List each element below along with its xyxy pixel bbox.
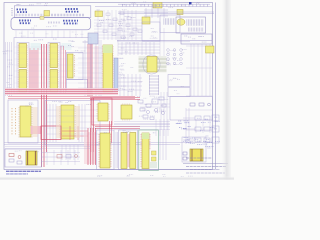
box around U12 (97, 130, 115, 170)
connector box J2 rounded (11, 18, 91, 30)
cassette interface labels (184, 36, 206, 42)
pin ticks U3 (74, 55, 76, 77)
CPU area labels (120, 43, 144, 92)
psu wires right (41, 153, 80, 162)
right long verticals (191, 44, 210, 96)
pin ticks U6 (19, 107, 32, 138)
red stub wires mid-bottom (62, 126, 88, 140)
row2 box titles (26, 103, 34, 106)
title separator (183, 163, 228, 165)
wires in U7 box (47, 104, 85, 142)
box around U1 pair (17, 43, 29, 94)
ladder below CPU (149, 76, 159, 94)
CPU outline (143, 55, 160, 74)
title text (186, 158, 226, 173)
parts box below logic (142, 22, 160, 41)
wire field left of U4 (85, 40, 101, 96)
regulator VR1 (177, 10, 183, 15)
pin cluster J1A (17, 9, 28, 12)
tan parts left of U6 (12, 108, 16, 136)
keypad box (176, 17, 206, 33)
box below keypad (181, 34, 212, 44)
comb network RN1 (164, 18, 176, 25)
box around U7 (45, 101, 100, 146)
top-right yellow part (206, 46, 215, 53)
pin ticks U14 (141, 134, 150, 167)
bottom page-edge shadow (0, 176, 234, 180)
blue box upper-left of U4 (88, 33, 98, 44)
pin ticks U2 (49, 45, 58, 91)
cluster wires (183, 118, 195, 140)
pink smear right of bus (95, 46, 99, 93)
latch U11 (153, 3, 162, 9)
bottom faint text (97, 175, 133, 177)
U3 box (67, 53, 84, 80)
box around U13 (119, 130, 138, 170)
analog cluster labels (137, 96, 168, 119)
IC U9 (121, 105, 132, 119)
IC U7 (61, 105, 74, 139)
diodes D1 D2 (57, 155, 77, 159)
secondary red pair (8, 97, 135, 99)
IC U4 tall (103, 45, 113, 92)
connector J2 pin labels (31, 26, 57, 28)
IC U2a (50, 44, 58, 68)
wires top middle (98, 10, 136, 40)
logic block labels (150, 29, 158, 39)
red bus row2 (90, 98, 140, 153)
drawing frame border (4, 3, 216, 170)
small parts mid J2 (48, 22, 61, 24)
IC U13a (121, 133, 127, 169)
CPU U5 (147, 57, 157, 73)
IC U3 (68, 54, 74, 78)
video section reference text (97, 10, 136, 38)
pin cluster J2A (19, 21, 31, 24)
comb network RN3 (187, 19, 205, 26)
pink block right of U6 (31, 126, 42, 134)
transformer bars (27, 151, 29, 165)
pin ticks U8 (97, 104, 109, 120)
row3 IC labels (104, 131, 156, 133)
pin ticks U9 (122, 104, 131, 120)
page background (0, 0, 234, 180)
blue jumper dot (189, 2, 192, 5)
red box lower mid (41, 126, 61, 140)
CPU pin hatch (139, 57, 167, 72)
left margin wires (6, 42, 12, 96)
IC U8 (98, 103, 108, 121)
IC U10 small (142, 17, 150, 24)
small parts field top-middle (97, 12, 142, 39)
parts row above modulator (183, 137, 214, 148)
video connector cluster (195, 115, 219, 143)
connector labels texture (16, 4, 47, 6)
IC U2b (50, 70, 58, 93)
small bead FB2 (40, 16, 44, 19)
annotation line2 (6, 173, 28, 175)
IC U13b (130, 133, 136, 169)
box below U3 (67, 80, 88, 92)
pin ticks U1 (18, 45, 27, 91)
decoupling cap row (122, 5, 208, 7)
keypad yellow cap (177, 19, 185, 25)
pin cluster J2B (63, 21, 78, 24)
connector box J1 (14, 6, 91, 18)
pin ticks U4 (102, 46, 113, 91)
long horizontal wire pair (4, 143, 212, 145)
red data bus (5, 90, 118, 94)
wires below CPU (120, 74, 140, 96)
parts above cluster (190, 103, 210, 106)
pin ticks U7 (60, 106, 76, 138)
pin cluster J1B (65, 9, 79, 12)
IC U1b (19, 70, 27, 93)
pink between U13 (127, 134, 129, 167)
IC U12 (100, 133, 110, 168)
wires above CPU (122, 42, 154, 55)
red box around U8 (92, 98, 112, 125)
address bus pink smear (29, 50, 39, 93)
box around U2 pair (48, 43, 60, 94)
parts left of modulator (183, 152, 187, 160)
keyboard transistor cluster (167, 49, 183, 65)
blue strip right of U4 (114, 58, 118, 91)
RAM bank labels (61, 46, 86, 51)
output connector labels (195, 117, 220, 142)
modulator bars (191, 149, 193, 161)
cyan patch right of U2 (62, 43, 72, 50)
empty box right (170, 97, 213, 121)
psu box (5, 149, 42, 167)
IC U1a (19, 44, 27, 68)
green hatch right of U14 (150, 163, 157, 167)
transformer T1 (26, 151, 37, 165)
power rail component labels (122, 2, 201, 7)
tan halo left of U7 (56, 106, 61, 138)
boxes below transistor cluster (168, 75, 190, 87)
comb network RN4 (188, 28, 204, 32)
small parts right of U14 (152, 151, 157, 161)
green top of U4 (103, 45, 113, 53)
driver box labels (169, 78, 184, 94)
pink smear horizontal (5, 88, 118, 95)
red pair right of U8 (95, 121, 140, 143)
oscillator Y1 (95, 11, 103, 17)
tan halo right of U6 (33, 107, 38, 137)
RAM bank outer box (14, 38, 91, 94)
IC U14 (142, 133, 149, 169)
extra mid-right buses (114, 122, 170, 130)
horizontal bus y12 (118, 12, 214, 13)
logic block box (160, 15, 180, 33)
bottom long line (60, 169, 212, 171)
ferrite bead FB1 (44, 11, 50, 17)
resistor array row (16, 14, 45, 16)
RF modulator M1 (190, 149, 203, 161)
red pair right of U2 (61, 46, 66, 93)
modulator enclosure (182, 137, 206, 162)
wires around U10 (144, 10, 168, 16)
row1 labels (34, 39, 88, 42)
right horizontals (186, 46, 212, 130)
pin ticks U12 (99, 134, 111, 167)
box around U6 (8, 100, 38, 143)
misc long wires (118, 28, 164, 56)
pink smear row3 (84, 132, 96, 164)
psu labels (15, 151, 40, 152)
annotation line1 (6, 170, 41, 172)
IC U6 (20, 106, 31, 137)
analog cluster right of U9 (138, 97, 166, 120)
top power rail (95, 4, 212, 6)
stub wires below connectors (16, 31, 82, 39)
green top of U14 (142, 133, 149, 139)
green box around U14 (139, 130, 159, 171)
wires between row3 boxes (116, 132, 118, 168)
tan halo right of U7 (76, 106, 81, 138)
cyan patch right of U1 (31, 43, 42, 50)
horizontals through RAM bank (14, 47, 91, 83)
bus under logic block (117, 39, 212, 41)
bus labels right of U4 (119, 58, 125, 89)
red bus right of U3 (88, 44, 92, 96)
bus list text (176, 121, 192, 129)
right page-edge shadow (221, 0, 231, 180)
horizontals across U3-U4 gap (78, 48, 102, 88)
psu parts (9, 154, 22, 165)
wires between rows (5, 147, 90, 149)
main red bus vertical (42, 44, 47, 167)
transistor grid labels (166, 50, 187, 65)
red bus into row3 (88, 128, 96, 165)
